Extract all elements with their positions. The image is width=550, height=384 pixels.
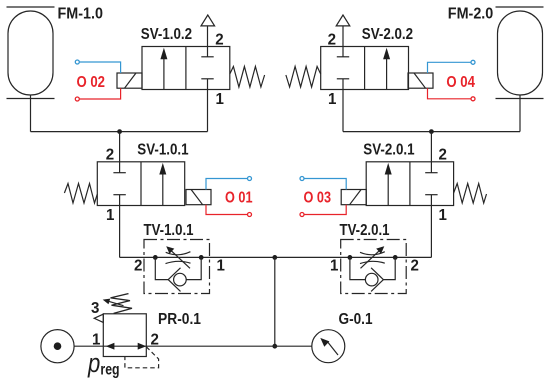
svg-text:O 04: O 04 [446,74,475,91]
pressure regulator PR-0.1 body [103,314,146,357]
output O 04 blue wire [428,62,472,73]
output O 02 blue wire [79,62,120,73]
exhaust stub SV-2.0.2 port 2 [342,26,344,47]
svg-text:O 03: O 03 [304,190,332,207]
wire FM-1.0 to manifold [30,95,32,132]
junction node TV-1.0.1 right [199,255,204,260]
junction node center manifold [272,255,277,260]
svg-text:G-0.1: G-0.1 [339,311,373,328]
output O 03 blue terminal [300,177,304,181]
exhaust triangle SV-1.0.2 [201,15,215,26]
valve SV-2.0.1 body [366,162,453,206]
reservoir FM-1.0 [7,7,55,99]
regulator pilot line dashed [125,347,159,368]
junction node TV-2.0.1 left [348,255,353,260]
exhaust triangle SV-2.0.2 [336,15,350,26]
valve SV-1.0.2 body [142,47,230,90]
wire SV-2.0.2 port 1 down [342,90,344,132]
output O 02 red wire [79,88,120,99]
throttle valve TV-1.0.1 enclosure [144,240,210,294]
junction node bottom manifold [272,344,277,349]
svg-text:1: 1 [217,258,226,275]
output O 01 red terminal [248,213,252,217]
output O 04 red terminal [471,97,475,101]
svg-text:2: 2 [215,31,223,48]
gauge needle [320,338,338,355]
output O 04 red wire [428,88,472,99]
svg-text:O 02: O 02 [77,74,106,91]
solenoid coil SV-2.0.1 [341,190,366,205]
svg-text:1: 1 [328,91,337,108]
output O 03 blue wire [304,179,346,190]
regulator adjustment arrow [103,299,124,306]
check valve TV-1.0.1 ball [174,273,187,286]
solenoid coil SV-2.0.2 [408,73,433,88]
svg-text:1: 1 [439,207,448,224]
pressure gauge G-0.1 [312,330,345,363]
wire center vertical [274,257,276,346]
valve SV-1.0.1 flow arrow [159,163,166,206]
svg-text:1: 1 [92,332,101,349]
valve SV-1.0.2 flow arrow [160,48,167,90]
wire FM-2.0 to manifold [519,95,521,132]
check valve TV-2.0.1 ball [365,273,378,286]
svg-text:1: 1 [106,207,115,224]
output O 03 red wire [304,205,346,215]
valve SV-1.0.2 closed port symbols [201,47,213,90]
valve SV-1.0.1 body [97,162,184,206]
wire junction to SV-2.0.1 port 2 [430,132,432,162]
throttle adjustment arrow TV-2.0.1 [361,246,385,268]
valve SV-2.0.2 flow arrow [383,48,390,90]
valve SV-2.0.1 flow arrow [385,163,392,206]
svg-text:2: 2 [411,258,419,275]
reservoir FM-2.0 [496,7,544,99]
output O 02 blue terminal [75,60,79,64]
pin 3 exhaust triangle PR-0.1 [94,314,103,322]
svg-text:TV-2.0.1: TV-2.0.1 [340,222,390,239]
svg-text:SV-2.0.1: SV-2.0.1 [363,142,415,159]
check valve TV-2.0.1 bypass wire [350,257,365,279]
svg-text:SV-1.0.1: SV-1.0.1 [137,142,189,159]
svg-text:2: 2 [151,332,159,349]
wire left manifold [31,131,208,133]
svg-text:O 01: O 01 [225,190,253,207]
svg-text:SV-1.0.2: SV-1.0.2 [141,26,192,43]
output O 01 blue terminal [248,177,252,181]
return spring SV-1.0.2 [230,67,265,88]
wire junction to SV-1.0.1 port 2 [119,132,121,162]
output O 03 red terminal [300,213,304,217]
wire up to SV-2.0.1 port 1 [430,206,432,258]
svg-text:SV-2.0.2: SV-2.0.2 [362,26,413,43]
junction node TV-2.0.1 right [393,255,398,260]
valve SV-1.0.1 closed port symbols [113,162,125,206]
junction node left manifold [117,129,122,134]
wire SV-1.0.2 port 1 down [207,90,209,132]
wire right manifold [343,131,520,133]
svg-text:1: 1 [330,258,339,275]
exhaust stub SV-1.0.2 port 2 [207,26,209,47]
check valve TV-1.0.1 seat [168,268,180,292]
value label p reg [87,349,119,379]
valve SV-2.0.2 closed port symbols [337,47,349,90]
svg-text:3: 3 [91,300,100,317]
return spring SV-2.0.1 [454,184,487,204]
return spring SV-2.0.2 [286,67,321,88]
solenoid coil SV-1.0.2 [117,73,142,88]
svg-text:2: 2 [328,31,336,48]
return spring SV-1.0.1 [64,184,97,204]
svg-text:reg: reg [100,361,119,379]
svg-text:2: 2 [106,146,114,163]
throttle restriction arcs TV-1.0.1 [166,252,191,264]
regulator flow arrowheads [106,343,147,350]
throttle adjustment arrow TV-1.0.1 [166,246,190,268]
junction node right manifold [429,129,434,134]
svg-text:FM-1.0: FM-1.0 [58,5,104,22]
output O 02 red terminal [75,97,79,101]
svg-text:p: p [87,349,100,378]
check valve TV-1.0.1 bypass wire [155,257,168,279]
wire bottom manifold [74,345,312,347]
output O 04 blue terminal [471,60,475,64]
regulator spring [111,294,133,314]
solenoid coil SV-1.0.1 [186,190,211,205]
svg-text:1: 1 [216,91,225,108]
output O 01 red wire [206,205,248,215]
junction node TV-1.0.1 left [153,255,158,260]
svg-text:FM-2.0: FM-2.0 [448,5,494,22]
svg-text:TV-1.0.1: TV-1.0.1 [144,222,194,239]
svg-text:2: 2 [134,258,142,275]
valve SV-2.0.2 body [321,47,409,90]
throttle restriction arcs TV-2.0.1 [360,252,385,264]
svg-text:2: 2 [439,146,447,163]
wire throttle level line [120,256,432,258]
throttle valve TV-2.0.1 enclosure [341,240,407,294]
compressed air source [41,330,74,363]
wire SV-1.0.1 port 1 down to throttle line [119,206,121,258]
check valve TV-2.0.1 seat [371,268,383,292]
svg-text:PR-0.1: PR-0.1 [158,311,201,328]
output O 01 blue wire [206,179,248,190]
valve SV-2.0.1 closed port symbols [425,162,437,206]
